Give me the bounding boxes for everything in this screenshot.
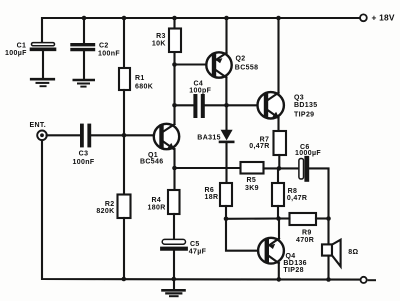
resistor R2: [96, 195, 130, 219]
transistor Q2: [206, 52, 258, 77]
wire R8 top stub: [277, 168, 279, 183]
svg-text:100µF: 100µF: [5, 50, 27, 57]
wire C3 to Q1 base: [91, 134, 154, 136]
wire C6 to speaker column: [309, 168, 328, 244]
svg-text:C2: C2: [99, 42, 109, 49]
svg-text:R3: R3: [156, 33, 166, 40]
wire C5 bottom to rail: [173, 251, 175, 279]
node bottom rail R2: [122, 277, 127, 282]
svg-text:C4: C4: [194, 80, 204, 87]
ground main: [163, 279, 185, 296]
wire feedback row from Q1 emitter node: [175, 167, 241, 169]
svg-text:1000µF: 1000µF: [295, 150, 321, 157]
svg-text:ENT.: ENT.: [30, 122, 47, 129]
ground (C1): [31, 79, 54, 86]
wire Q4 collector to rail: [278, 263, 280, 279]
wire Q3 collector to rail: [277, 18, 279, 93]
svg-text:100nF: 100nF: [98, 50, 120, 57]
wire R6 bottom to node: [225, 206, 227, 219]
node R3/Q2-base: [172, 62, 177, 67]
capacitor C4: [189, 80, 211, 116]
wire Q2 emitter to rail: [225, 18, 227, 53]
resistor R3: [152, 29, 181, 53]
transistor Q1: [140, 124, 179, 166]
svg-text:680K: 680K: [135, 83, 153, 90]
wire input to C3: [47, 134, 80, 136]
ground (C2): [74, 80, 94, 87]
node Q1-collector/C4: [172, 103, 177, 108]
svg-text:0,47R: 0,47R: [287, 195, 307, 202]
wire R1 stub from rail: [123, 18, 125, 68]
wire C4 left: [175, 104, 194, 106]
resistor R6: [205, 183, 233, 206]
svg-text:100pF: 100pF: [189, 88, 211, 95]
capacitor C6: [295, 144, 321, 180]
resistor R4: [148, 190, 180, 214]
wire bottom rail: [42, 140, 360, 280]
wire Q3 emitter to R7: [277, 118, 279, 131]
terminal input ENT.: [30, 122, 47, 140]
wire Q4 emitter up: [278, 219, 280, 239]
svg-text:R1: R1: [135, 75, 145, 82]
node rail Q2 emitter: [224, 16, 229, 21]
svg-text:10K: 10K: [152, 40, 166, 47]
wire R3 stub from rail: [173, 18, 175, 29]
wire Q2 base: [175, 63, 208, 65]
wire R5 to output node: [264, 167, 299, 169]
node bottom rail ground: [172, 277, 177, 282]
node bottom rail speaker: [326, 277, 331, 282]
node rail C2: [82, 16, 87, 21]
svg-text:18R: 18R: [205, 194, 219, 201]
resistor R8: [272, 183, 307, 206]
node C4/diode/Q2-collector/Q3-base: [224, 103, 229, 108]
wire Q1 emitter down: [173, 149, 175, 190]
svg-text:180R: 180R: [148, 205, 166, 212]
svg-text:BC546: BC546: [140, 158, 164, 165]
node rail Q3 collector: [276, 16, 281, 21]
node rail R3: [172, 16, 177, 21]
wire R1 bottom to node: [123, 90, 125, 135]
svg-text:R2: R2: [105, 201, 115, 208]
svg-text:8Ω: 8Ω: [348, 249, 358, 256]
wire R8 bottom stub: [277, 206, 279, 219]
transistor Q4: [258, 238, 307, 274]
svg-text:Q2: Q2: [236, 56, 246, 63]
svg-text:100nF: 100nF: [73, 159, 95, 166]
svg-text:R9: R9: [302, 230, 312, 237]
wire C2 stub from rail: [83, 18, 85, 43]
svg-text:C3: C3: [79, 151, 89, 158]
capacitor C2: [72, 42, 120, 79]
node R8/R9/Q4-emitter: [276, 216, 281, 221]
wire speaker bottom to rail: [327, 256, 329, 280]
node C3/R1/R2: [122, 133, 127, 138]
node rail R1: [122, 16, 127, 21]
wire R7 bottom to output node: [278, 155, 280, 168]
svg-text:Q3: Q3: [294, 95, 304, 102]
wire top +V rail: [42, 18, 360, 43]
node Q1-emitter/R4/feedback: [172, 166, 177, 171]
resistor R7: [249, 131, 286, 155]
svg-text:BD136: BD136: [283, 260, 307, 267]
speaker LS1: [322, 240, 359, 267]
node R9/speaker: [326, 216, 331, 221]
svg-text:R6: R6: [205, 187, 215, 194]
svg-text:+ 18V: + 18V: [372, 13, 395, 23]
diode BA315: [197, 130, 233, 142]
wire R2 bottom to rail: [123, 218, 125, 279]
svg-text:3K9: 3K9: [245, 185, 259, 192]
resistor R1: [119, 68, 153, 90]
wire R2 stub: [123, 135, 125, 194]
wire Q4 base L-bend: [226, 219, 258, 251]
wire diode to R6: [225, 143, 227, 183]
resistor R9: [290, 213, 317, 244]
svg-text:BC558: BC558: [235, 65, 259, 72]
svg-text:TIP29: TIP29: [294, 112, 314, 119]
svg-text:TIP28: TIP28: [283, 267, 303, 274]
svg-text:R5: R5: [247, 177, 257, 184]
capacitor C5: [162, 239, 206, 255]
svg-text:0,47R: 0,47R: [249, 143, 269, 150]
node R7/R5/R8/C6: [277, 166, 282, 171]
capacitor C1: [5, 43, 54, 78]
terminal minus output: [361, 277, 376, 283]
resistor R5: [241, 162, 264, 192]
wire diode top: [225, 105, 227, 130]
wire C4 right to Q3 base: [205, 104, 258, 106]
node bottom rail Q4: [277, 277, 282, 282]
svg-text:470R: 470R: [296, 237, 314, 244]
wire Q2 collector down: [225, 77, 227, 105]
wire R9 right to speaker column: [316, 217, 329, 219]
capacitor C3: [73, 126, 95, 166]
node R6/Q4: [224, 217, 229, 222]
wire Q4 node row: [226, 217, 279, 219]
svg-text:820K: 820K: [96, 208, 114, 215]
svg-text:BA315: BA315: [197, 134, 221, 141]
svg-text:Q4: Q4: [286, 253, 296, 260]
svg-text:C5: C5: [190, 241, 200, 248]
wire R4 bottom to C5: [173, 214, 175, 239]
transistor Q3: [258, 92, 318, 119]
wire R9 left stub: [279, 217, 290, 219]
svg-text:R4: R4: [152, 197, 162, 204]
terminal +18V: [360, 13, 395, 23]
svg-text:47µF: 47µF: [189, 248, 207, 255]
wire R3 bottom down to Q1 collector: [173, 52, 175, 124]
svg-text:C1: C1: [17, 43, 27, 50]
svg-text:BD135: BD135: [294, 102, 318, 109]
